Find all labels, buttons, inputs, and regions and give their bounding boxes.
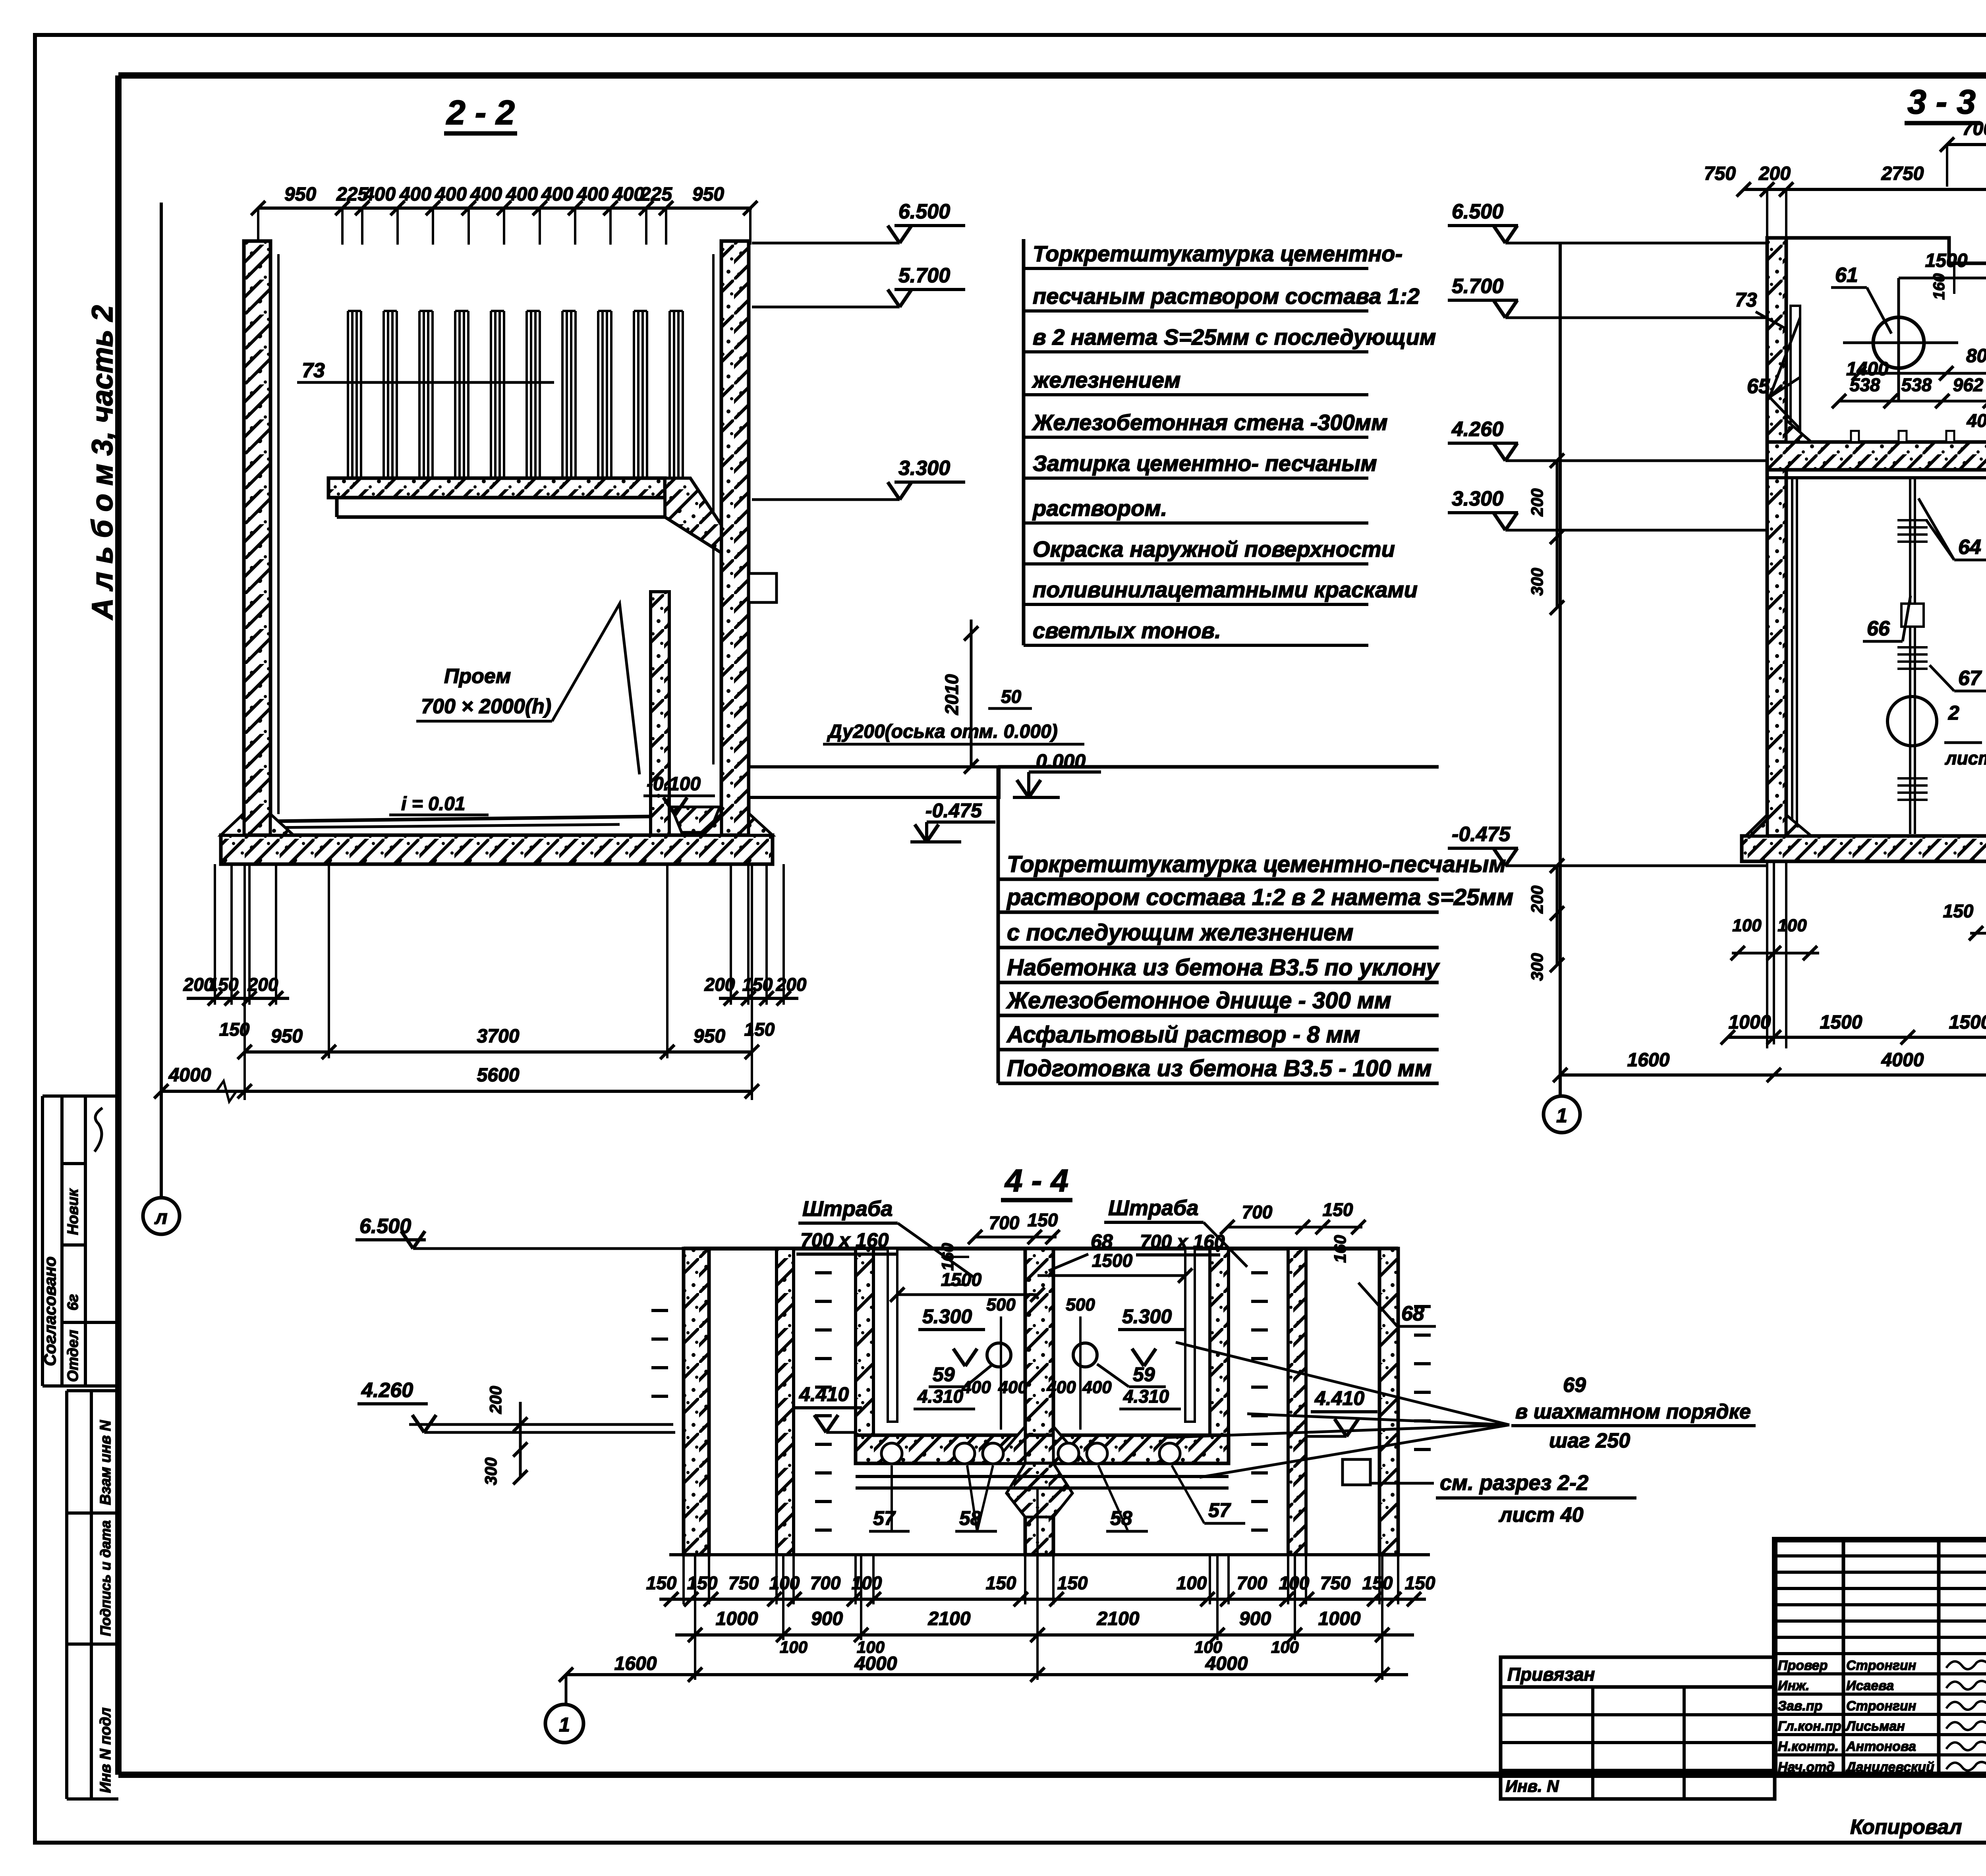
svg-text:Инв. N: Инв. N	[1505, 1777, 1559, 1795]
3-3 dim row 1600/4000/4000	[1560, 1073, 1986, 1077]
svg-text:Окраска наружной поверхности: Окраска наружной поверхности	[1033, 537, 1395, 562]
svg-text:Подпись и дата: Подпись и дата	[97, 1520, 114, 1636]
svg-text:Данилевский: Данилевский	[1845, 1760, 1934, 1775]
4-4 top edge	[684, 1247, 1398, 1251]
svg-text:800: 800	[1966, 345, 1986, 367]
svg-text:900: 900	[1239, 1608, 1271, 1629]
svg-text:раствором.: раствором.	[1032, 496, 1167, 521]
partition wall with opening	[651, 592, 669, 835]
svg-text:4000: 4000	[854, 1653, 897, 1674]
3-3 top dim row 1	[1947, 143, 1986, 146]
svg-text:400: 400	[363, 184, 396, 205]
svg-text:150: 150	[1405, 1573, 1435, 1593]
2-2 dim row 4000 5600	[161, 1090, 752, 1093]
svg-text:160: 160	[1331, 1235, 1349, 1263]
svg-text:100: 100	[1777, 916, 1807, 935]
svg-text:1000: 1000	[1729, 1012, 1771, 1033]
svg-text:5600: 5600	[477, 1065, 520, 1086]
floor slope	[270, 816, 651, 821]
svg-text:Торкретштукатурка цементно-пес: Торкретштукатурка цементно-песчаным	[1007, 851, 1506, 877]
svg-text:700: 700	[989, 1212, 1020, 1233]
wall 4-4 right liner	[1288, 1249, 1306, 1555]
svg-text:4000: 4000	[1205, 1653, 1248, 1674]
svg-text:700: 700	[1237, 1573, 1267, 1593]
svg-text:л: л	[154, 1206, 167, 1228]
svg-text:Асфальтовый раствор -: Асфальтовый раствор - 8 мм	[1006, 1022, 1360, 1048]
svg-text:3.300: 3.300	[898, 457, 950, 480]
3-3 bottom extension lines	[1766, 861, 1768, 1048]
svg-text:Железобетонная стена -300мм: Железобетонная стена -300мм	[1032, 410, 1388, 435]
svg-text:Н.контр.: Н.контр.	[1778, 1739, 1839, 1754]
sump	[671, 807, 720, 832]
wall 2-2 right	[721, 241, 749, 835]
svg-text:150: 150	[1362, 1573, 1393, 1593]
axis line 1 (3-3)	[1559, 243, 1562, 1095]
svg-text:900: 900	[811, 1608, 843, 1629]
left margin inventory table	[67, 1391, 118, 1799]
svg-text:Антонова: Антонова	[1846, 1739, 1916, 1754]
svg-text:150: 150	[1057, 1573, 1088, 1593]
svg-text:1500: 1500	[1820, 1012, 1862, 1033]
svg-text:57: 57	[1208, 1499, 1231, 1521]
svg-text:500: 500	[986, 1295, 1016, 1314]
circle 2/list	[1887, 697, 1937, 746]
svg-text:5.300: 5.300	[922, 1305, 972, 1328]
svg-text:железнением: железнением	[1032, 367, 1180, 392]
svg-text:Подготовка из бетона В3.5: Подготовка из бетона В3.5 - 100 мм	[1007, 1056, 1432, 1081]
3-3 top dim row 2	[1744, 188, 1986, 191]
svg-text:Стронгин: Стронгин	[1846, 1698, 1916, 1714]
svg-text:400: 400	[612, 184, 644, 205]
4-4 dim row 1	[659, 1598, 1426, 1601]
svg-text:200: 200	[1528, 886, 1546, 914]
svg-text:Штраба: Штраба	[802, 1197, 893, 1221]
dims 1500/500 inside 4-4	[897, 1293, 1037, 1296]
svg-text:100: 100	[769, 1573, 800, 1593]
3-3 small dims bottom	[1732, 952, 1819, 955]
title block outer	[1775, 1540, 1986, 1775]
svg-text:200: 200	[1758, 163, 1791, 184]
svg-text:300: 300	[1528, 568, 1546, 596]
svg-text:538: 538	[1850, 374, 1880, 395]
signatures	[1946, 1661, 1986, 1669]
svg-text:150: 150	[1943, 901, 1974, 921]
svg-text:150: 150	[208, 974, 239, 995]
4-4 bottom extension lines	[682, 1555, 685, 1604]
leader opening	[552, 604, 639, 774]
svg-text:см. разрез 2-2: см. разрез 2-2	[1440, 1471, 1588, 1495]
central wall haunch X	[1007, 1463, 1072, 1517]
svg-text:73: 73	[302, 359, 325, 382]
svg-text:73: 73	[1735, 289, 1757, 311]
svg-text:2 - 2: 2 - 2	[446, 94, 515, 132]
svg-text:4.260: 4.260	[1451, 418, 1503, 441]
svg-text:6г: 6г	[65, 1294, 81, 1310]
svg-text:-0.475: -0.475	[1452, 823, 1511, 846]
svg-text:раствором состава 1:2 в 2 нам: раствором состава 1:2 в 2 намета s=25мм	[1006, 884, 1513, 910]
svg-text:4.310: 4.310	[1123, 1386, 1169, 1407]
svg-text:Нач.отд: Нач.отд	[1778, 1760, 1835, 1775]
svg-text:750: 750	[728, 1573, 759, 1593]
4-4 top dims 700/150	[975, 1236, 1057, 1239]
3-3 dim row 1000/1500	[1728, 1036, 1986, 1039]
svg-text:Привязан: Привязан	[1507, 1664, 1595, 1685]
svg-text:2: 2	[1948, 702, 1959, 724]
rod assemblies in lower compartment	[1909, 477, 1911, 834]
svg-text:200: 200	[776, 974, 807, 995]
axis circle 1 (4-4)	[565, 1675, 568, 1704]
2-2 dim row 950 3700 950	[245, 1050, 752, 1054]
svg-text:3.300: 3.300	[1452, 487, 1503, 510]
wall 4-4 tank right	[1210, 1249, 1229, 1463]
tank inner liners	[888, 1249, 897, 1422]
bottom slab 2-2	[221, 835, 773, 864]
svg-text:950: 950	[271, 1026, 303, 1047]
svg-text:5.700: 5.700	[898, 264, 950, 287]
svg-text:950: 950	[694, 1026, 725, 1047]
svg-text:лист 40: лист 40	[1498, 1504, 1584, 1527]
niche box 2-2 right wall	[749, 573, 777, 602]
svg-text:700: 700	[1962, 118, 1986, 139]
left margin approval table	[43, 1096, 118, 1386]
svg-text:50: 50	[1001, 686, 1022, 707]
tank floor 4-4	[856, 1435, 1229, 1463]
floor anchor circles	[881, 1443, 902, 1464]
svg-text:в шахматном порядке: в шахматном порядке	[1515, 1400, 1751, 1423]
svg-text:200: 200	[486, 1386, 505, 1414]
svg-text:i = 0.01: i = 0.01	[401, 793, 465, 814]
svg-text:Гл.кон.пр: Гл.кон.пр	[1778, 1719, 1841, 1734]
plaster liner lines 2-2	[277, 254, 280, 814]
svg-text:-0.100: -0.100	[647, 774, 701, 795]
svg-text:400: 400	[470, 184, 502, 205]
svg-text:150: 150	[1323, 1199, 1353, 1220]
hole 61 left	[1873, 317, 1924, 368]
wall 2-2 left	[244, 241, 270, 835]
svg-text:400: 400	[961, 1378, 991, 1397]
svg-text:100: 100	[1271, 1638, 1299, 1656]
svg-text:светлых тонов.: светлых тонов.	[1033, 618, 1221, 643]
svg-text:2100: 2100	[928, 1608, 971, 1629]
svg-text:200: 200	[704, 974, 735, 995]
svg-text:Согласовано: Согласовано	[41, 1256, 59, 1366]
svg-text:Проем: Проем	[444, 665, 511, 688]
svg-text:2010: 2010	[941, 674, 962, 715]
svg-text:4.410: 4.410	[1314, 1387, 1364, 1409]
svg-text:-0.475: -0.475	[925, 799, 982, 822]
svg-text:200: 200	[1528, 488, 1546, 517]
svg-text:61: 61	[1835, 264, 1858, 287]
svg-text:Зав.пр: Зав.пр	[1778, 1698, 1822, 1714]
svg-text:700: 700	[1242, 1202, 1273, 1222]
2-2 bottom extension lines	[214, 864, 216, 1005]
groundwater dashes	[815, 1271, 832, 1274]
svg-text:100: 100	[1732, 916, 1762, 935]
svg-text:с последующим железнением: с последующим железнением	[1007, 920, 1353, 946]
svg-text:Торкретштукатурка цементно-: Торкретштукатурка цементно-	[1033, 241, 1403, 266]
svg-text:100: 100	[852, 1573, 882, 1593]
svg-text:Штраба: Штраба	[1108, 1196, 1198, 1220]
wall 4-4 tank left	[856, 1249, 873, 1463]
svg-text:6.500: 6.500	[898, 200, 950, 223]
vertical dims right of 2-2	[970, 620, 973, 766]
svg-text:700: 700	[810, 1573, 841, 1593]
svg-text:4.310: 4.310	[917, 1386, 964, 1407]
svg-text:225: 225	[640, 184, 672, 205]
svg-text:1: 1	[1556, 1104, 1567, 1127]
wall 4-4 outer left	[684, 1249, 709, 1555]
svg-text:400: 400	[576, 184, 609, 205]
axis circle L	[143, 1198, 180, 1234]
svg-text:3700: 3700	[477, 1026, 520, 1047]
svg-text:100: 100	[1177, 1573, 1207, 1593]
svg-text:1000: 1000	[1318, 1608, 1361, 1629]
4-4 dim row 3	[566, 1673, 1408, 1676]
svg-text:400: 400	[1046, 1378, 1076, 1397]
svg-text:68: 68	[1401, 1302, 1424, 1325]
svg-text:песчаным раствором состава 1:2: песчаным раствором состава 1:2	[1033, 284, 1420, 309]
svg-text:400: 400	[435, 184, 467, 205]
svg-text:1500: 1500	[1925, 250, 1968, 271]
svg-text:Железобетонное днище -: Железобетонное днище - 300 мм	[1006, 988, 1391, 1013]
svg-text:1: 1	[559, 1714, 570, 1736]
svg-text:4000: 4000	[1881, 1050, 1924, 1071]
slab right haunch	[665, 478, 721, 553]
svg-text:66: 66	[1867, 617, 1890, 640]
svg-text:0.000: 0.000	[1036, 750, 1086, 772]
wall 4-4 left liner	[777, 1249, 794, 1555]
axis line L	[160, 203, 163, 1198]
svg-text:400: 400	[506, 184, 538, 205]
svg-text:шаг 250: шаг 250	[1549, 1429, 1630, 1452]
upper specification text block	[1022, 239, 1026, 645]
axis circle 1	[1544, 1096, 1580, 1133]
svg-text:750: 750	[1320, 1573, 1351, 1593]
svg-text:Инв N подл: Инв N подл	[97, 1708, 114, 1793]
svg-text:Ду200(оська отм. 0.000): Ду200(оська отм. 0.000)	[827, 721, 1058, 742]
svg-text:300: 300	[1528, 953, 1546, 981]
svg-text:1500: 1500	[1949, 1012, 1986, 1033]
microfilter comb 73	[347, 311, 349, 478]
svg-text:Лисьман: Лисьман	[1845, 1719, 1905, 1734]
comb support slab	[328, 478, 665, 498]
svg-text:1000: 1000	[716, 1608, 758, 1629]
svg-text:поливинилацетатными красками: поливинилацетатными красками	[1033, 577, 1418, 602]
svg-text:950: 950	[284, 184, 316, 205]
svg-text:Затирка цементно- песчаным: Затирка цементно- песчаным	[1033, 451, 1377, 476]
3-3 tank top edge with step notches	[1767, 238, 1986, 263]
svg-text:150: 150	[1028, 1210, 1058, 1230]
svg-text:400: 400	[1082, 1378, 1112, 1397]
svg-text:400: 400	[998, 1378, 1028, 1397]
svg-text:65: 65	[1747, 375, 1770, 398]
dims 1500 inside cells	[1899, 277, 1986, 280]
svg-text:500: 500	[1066, 1295, 1095, 1314]
svg-text:3 - 3: 3 - 3	[1907, 83, 1976, 121]
svg-text:А л ь б о м 3, часть 2: А л ь б о м 3, часть 2	[86, 305, 119, 620]
dims 538 962 row	[1839, 400, 1986, 403]
ground line 4-4	[669, 1553, 1430, 1556]
svg-text:950: 950	[692, 184, 724, 205]
svg-text:1600: 1600	[614, 1653, 657, 1674]
svg-text:400: 400	[1967, 410, 1986, 431]
svg-text:100: 100	[780, 1638, 808, 1656]
title block small grid	[1843, 1540, 1986, 1775]
svg-text:Новик: Новик	[65, 1188, 81, 1235]
see razrez 2-2 list 40 (4-4)	[1343, 1459, 1370, 1485]
svg-text:2100: 2100	[1097, 1608, 1140, 1629]
pipe Du200	[749, 767, 999, 797]
svg-text:64: 64	[1958, 536, 1981, 559]
4-4 dim row 2	[675, 1633, 1414, 1637]
svg-text:150: 150	[687, 1573, 718, 1593]
bottom slab 3-3	[1742, 836, 1986, 861]
svg-text:4 - 4: 4 - 4	[1004, 1163, 1068, 1198]
svg-text:150: 150	[744, 1019, 775, 1040]
svg-text:Копировал: Копировал	[1850, 1816, 1962, 1839]
svg-text:538: 538	[1901, 374, 1932, 395]
2-2 dim row 200 150 200	[187, 997, 289, 1000]
svg-text:69: 69	[1563, 1374, 1586, 1397]
svg-text:67: 67	[1958, 667, 1982, 690]
svg-text:6.500: 6.500	[1452, 200, 1503, 223]
svg-text:2750: 2750	[1881, 163, 1924, 184]
privyazan table	[1501, 1657, 1775, 1799]
small vertical dims on axis 3-3	[1556, 461, 1559, 608]
svg-text:1600: 1600	[1627, 1050, 1670, 1071]
svg-text:Исаева: Исаева	[1846, 1678, 1894, 1693]
svg-text:Инж.: Инж.	[1778, 1678, 1809, 1693]
svg-text:100: 100	[1279, 1573, 1310, 1593]
svg-text:400: 400	[399, 184, 431, 205]
svg-text:5.300: 5.300	[1122, 1305, 1172, 1328]
svg-text:150: 150	[742, 974, 773, 995]
svg-text:4000: 4000	[168, 1065, 211, 1086]
wall 3-3 outer left	[1767, 238, 1786, 836]
svg-text:Отдел: Отдел	[65, 1330, 81, 1382]
svg-text:700 х 160: 700 х 160	[800, 1229, 889, 1251]
cells floor slab	[1767, 442, 1986, 470]
liner walls 73	[1791, 306, 1800, 442]
liner lines 3-3 lower	[1791, 478, 1793, 834]
svg-text:150: 150	[646, 1573, 677, 1593]
svg-text:Стронгин: Стронгин	[1846, 1658, 1916, 1673]
svg-text:лист: лист	[1945, 748, 1986, 768]
svg-text:Провер: Провер	[1778, 1658, 1828, 1673]
svg-text:Набетонка из бетона В3.5 по: Набетонка из бетона В3.5 по уклону	[1007, 955, 1440, 980]
svg-text:200: 200	[247, 974, 278, 995]
wall 4-4 outer right	[1379, 1249, 1398, 1555]
svg-text:4.260: 4.260	[361, 1379, 413, 1402]
svg-text:150: 150	[986, 1573, 1016, 1593]
svg-text:5.700: 5.700	[1452, 275, 1503, 298]
lower specification text block	[997, 766, 1000, 1083]
dims 800 row	[1859, 372, 1986, 375]
svg-text:1500: 1500	[1092, 1250, 1133, 1271]
svg-text:68: 68	[1091, 1230, 1113, 1253]
svg-text:150: 150	[219, 1019, 250, 1040]
svg-text:1500: 1500	[941, 1269, 982, 1290]
svg-text:Взам инв N: Взам инв N	[97, 1420, 114, 1505]
svg-text:400: 400	[541, 184, 573, 205]
svg-text:700 х 160: 700 х 160	[1140, 1231, 1225, 1253]
svg-text:300: 300	[481, 1457, 500, 1485]
svg-text:700 × 2000(h): 700 × 2000(h)	[421, 695, 551, 718]
svg-text:в 2 намета S=25мм с последую: в 2 намета S=25мм с последующим	[1033, 324, 1436, 349]
svg-text:59: 59	[933, 1363, 955, 1386]
wall 4-4 central	[1025, 1249, 1053, 1555]
svg-text:750: 750	[1704, 163, 1736, 184]
svg-text:59: 59	[1133, 1363, 1155, 1386]
svg-text:4.410: 4.410	[799, 1383, 849, 1405]
dim chain 2-2 top	[258, 207, 752, 210]
svg-text:962: 962	[1953, 374, 1984, 395]
